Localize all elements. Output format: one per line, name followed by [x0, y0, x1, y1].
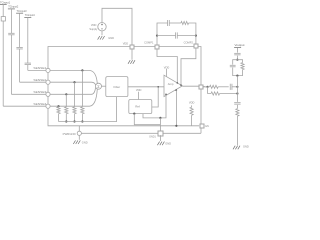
- ground below VDD supply: [101, 31, 103, 35]
- wire input1 to SENSE4: [3, 105, 46, 107]
- svg-text:VDD: VDD: [189, 101, 195, 105]
- resistor R2: [65, 94, 67, 107]
- wire input1 vertical: [2, 5, 4, 17]
- svg-text:EN: EN: [205, 125, 209, 128]
- wire input4 to SENSE1: [28, 69, 46, 71]
- wire input2 vertical: [10, 9, 12, 33]
- wire SENSE3 to summer: [50, 93, 91, 95]
- node loop top: [236, 59, 238, 61]
- svg-text:COMP2: COMP2: [184, 40, 194, 44]
- wire COMP2 up: [195, 36, 197, 45]
- resistor R9 loop right: [241, 63, 244, 70]
- capacitor C5 middle branch: [157, 35, 176, 37]
- wire input3 vertical: [19, 13, 21, 47]
- wire resistor bus to filter: [59, 97, 117, 122]
- svg-text:GND: GND: [165, 141, 171, 145]
- summing node U2: [96, 83, 102, 89]
- resistor R3: [74, 82, 76, 107]
- node output split: [203, 86, 208, 88]
- node tap R2: [65, 93, 67, 95]
- resistor R8 pull-up: [191, 105, 193, 107]
- VDD supply source V1: [98, 23, 106, 31]
- node rail R5C7: [236, 86, 238, 88]
- wire input4 vertical: [27, 18, 29, 64]
- wire COMP1 to amp: [157, 48, 177, 83]
- capacitor C2 on input2: [8, 32, 14, 34]
- svg-text:TCinput1: TCinput1: [0, 0, 11, 4]
- resistor R7 upper branch: [181, 21, 189, 24]
- resistor R1: [58, 105, 60, 108]
- node COMP1 junction: [156, 34, 158, 36]
- node resistor bus junctions: [65, 120, 67, 122]
- wire VDD supply to VDD pin: [102, 8, 132, 44]
- svg-text:SENSE3: SENSE3: [33, 90, 47, 94]
- svg-text:Voutput: Voutput: [235, 43, 245, 47]
- wire COMP1 up: [156, 36, 158, 45]
- svg-text:Ref: Ref: [135, 105, 140, 109]
- wire summer to filter: [102, 85, 106, 87]
- pin SENSE2: [46, 80, 50, 84]
- svg-text:TCinput4: TCinput4: [25, 13, 36, 17]
- node rail R6: [236, 92, 238, 94]
- pin SENSE3: [46, 92, 50, 96]
- ground below GND2: [159, 135, 161, 141]
- wire COMP2 to amp: [181, 48, 196, 85]
- pin SENSE1: [46, 68, 50, 72]
- resistor R4: [81, 70, 83, 107]
- svg-text:GND1: GND1: [149, 136, 156, 139]
- pin SENSE4: [46, 104, 50, 108]
- svg-text:Filter: Filter: [113, 85, 120, 89]
- svg-text:Amp: Amp: [168, 82, 174, 86]
- wire to GND2 pin: [159, 118, 161, 131]
- svg-text:Supply: Supply: [89, 27, 98, 31]
- external ground bus: [81, 132, 201, 134]
- svg-text:SENSE4: SENSE4: [33, 102, 47, 106]
- ground bottom right: [233, 146, 235, 150]
- node tap R1: [57, 105, 59, 107]
- upper branch wires: [157, 23, 168, 36]
- wire filter to amp: [128, 86, 164, 88]
- resistor R5 output: [208, 86, 210, 88]
- svg-text:COMP1: COMP1: [144, 40, 154, 44]
- node tap R4: [81, 69, 83, 71]
- resistor R6 output lower: [208, 87, 212, 94]
- reference block U4: [129, 100, 152, 114]
- capacitor C7 output: [229, 84, 231, 90]
- output terminal Voutput: [234, 46, 241, 48]
- wire ref to gnd net A: [134, 114, 160, 125]
- input terminal TCinput4: [24, 17, 31, 19]
- wire SENSE4 to summer: [50, 105, 89, 107]
- filter block U3: [106, 77, 128, 97]
- node COMP2 junction: [195, 34, 197, 36]
- capacitor C8: [234, 52, 240, 54]
- input terminal TCinput2: [8, 8, 15, 10]
- pin COMP1: [155, 45, 159, 49]
- node tap R3: [73, 81, 75, 83]
- pin GND2 square: [158, 131, 163, 136]
- pin OUT: [199, 85, 203, 89]
- svg-text:GND: GND: [108, 36, 114, 40]
- pin PWRGND circle: [78, 126, 80, 131]
- input terminal TCinput1: [0, 4, 7, 6]
- ground below PWRGND: [78, 135, 80, 139]
- wire input2 to SENSE3: [11, 93, 46, 95]
- internal VDD stub with ground symbol: [131, 48, 133, 59]
- svg-text:TCinput3: TCinput3: [17, 9, 28, 13]
- svg-text:VDD: VDD: [91, 23, 97, 27]
- svg-text:GND: GND: [243, 144, 249, 148]
- wire SENSE2 to summer: [50, 81, 91, 83]
- parallel RC loop: [233, 60, 238, 65]
- wire terminal down: [236, 47, 238, 52]
- input terminal TCinput3: [16, 12, 23, 14]
- capacitor C9 loop left: [230, 64, 236, 66]
- wire ref output to amp input: [152, 87, 158, 107]
- wire amp feedback to bottom: [175, 90, 177, 126]
- svg-text:VDD: VDD: [123, 41, 129, 45]
- capacitor C6 upper branch: [167, 20, 169, 26]
- pin COMP2: [194, 44, 198, 48]
- svg-text:TCinput2: TCinput2: [8, 5, 19, 9]
- capacitor C4 on input4: [25, 62, 31, 64]
- node gnd tie: [159, 117, 161, 119]
- op-amp U1 Amp: [164, 75, 182, 96]
- svg-text:PWRGND: PWRGND: [63, 132, 76, 136]
- svg-text:SENSE2: SENSE2: [33, 78, 47, 82]
- wire input3 to SENSE2: [20, 81, 46, 83]
- capacitor C3 on input3: [16, 46, 22, 48]
- node ref bottom: [133, 113, 135, 115]
- node loop bottom: [236, 75, 238, 77]
- svg-text:GND: GND: [82, 141, 88, 145]
- pin EN: [200, 124, 204, 128]
- svg-text:VDD: VDD: [164, 65, 170, 69]
- capacitor C1 (box) on input1: [1, 17, 5, 21]
- wire ref to amp lower corner: [143, 94, 166, 118]
- capacitor C10 rail: [234, 102, 240, 104]
- pin VDD: [130, 45, 134, 49]
- svg-text:VDD: VDD: [136, 88, 142, 92]
- wire amp output: [182, 85, 199, 87]
- IC boundary box: [48, 47, 194, 71]
- wire rail middle: [236, 76, 238, 102]
- resistor R10 rail: [236, 105, 238, 109]
- svg-text:SENSE1: SENSE1: [33, 66, 47, 70]
- node amp feedback: [175, 89, 177, 91]
- wire SENSE1 to summer: [50, 69, 89, 71]
